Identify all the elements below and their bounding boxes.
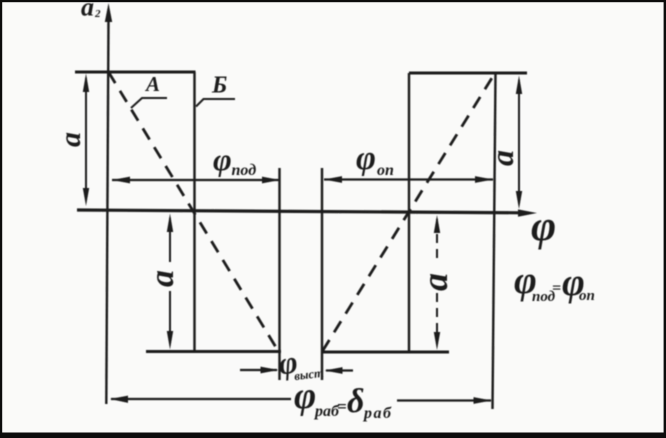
- svg-text:a: a: [54, 132, 87, 147]
- leader line A: [131, 98, 167, 108]
- dimension phi_rab line (left part): [110, 396, 291, 403]
- left pulse top edge: [75, 71, 196, 74]
- svg-text:2: 2: [94, 8, 101, 20]
- svg-text:φ: φ: [213, 141, 232, 177]
- svg-text:φ: φ: [294, 375, 316, 417]
- svg-text:оп: оп: [579, 288, 595, 304]
- svg-text:=: =: [552, 280, 561, 297]
- dimension phi_vyst left arrow: [240, 367, 279, 374]
- label phi_op: [356, 140, 394, 179]
- horizontal axis phi: [77, 209, 537, 216]
- dashed diagonal (right): [323, 73, 496, 351]
- dimension a (left, below axis): [167, 214, 173, 350]
- note phi_pod = phi_op: [514, 259, 595, 305]
- left pulse right edge extension: [278, 168, 280, 380]
- right pulse left edge: [408, 73, 410, 352]
- label phi_rab = delta_rab: [294, 375, 392, 422]
- dimension phi_rab line (right part): [397, 397, 492, 404]
- svg-text:a: a: [81, 0, 94, 22]
- dashed diagonal A (left): [109, 72, 278, 349]
- svg-text:Б: Б: [211, 73, 227, 99]
- label phi_vyst: [276, 340, 324, 385]
- dimension a (left, above axis): [83, 74, 89, 207]
- svg-text:оп: оп: [377, 162, 394, 179]
- right dwell boundary line: [321, 168, 323, 380]
- svg-text:раб: раб: [313, 403, 340, 420]
- svg-text:под: под: [232, 162, 257, 179]
- right pulse right edge: [493, 73, 496, 409]
- vertical axis a2: [105, 3, 112, 404]
- right pulse bottom edge: [322, 351, 449, 354]
- right pulse top edge: [409, 72, 527, 75]
- svg-text:a: a: [144, 270, 181, 287]
- svg-text:δ: δ: [347, 383, 364, 420]
- svg-text:a: a: [415, 273, 455, 291]
- svg-text:раб: раб: [362, 405, 392, 422]
- svg-text:a: a: [484, 150, 520, 166]
- dimension a (right, above axis): [516, 76, 522, 210]
- svg-text:=: =: [337, 397, 347, 416]
- dimension phi_vyst right arrow: [325, 367, 354, 374]
- left pulse bottom edge: [146, 350, 281, 353]
- dimension phi_pod: [112, 177, 280, 184]
- label phi_pod: [213, 141, 256, 179]
- left pulse divider: [193, 72, 195, 352]
- svg-text:φ: φ: [356, 140, 376, 177]
- leader line B: [196, 99, 235, 107]
- svg-text:А: А: [144, 72, 160, 96]
- axis label a2: [81, 0, 101, 22]
- dimension a (right, below axis, dashed): [434, 215, 440, 350]
- dimension phi_op: [324, 176, 493, 183]
- svg-text:φ: φ: [531, 203, 556, 250]
